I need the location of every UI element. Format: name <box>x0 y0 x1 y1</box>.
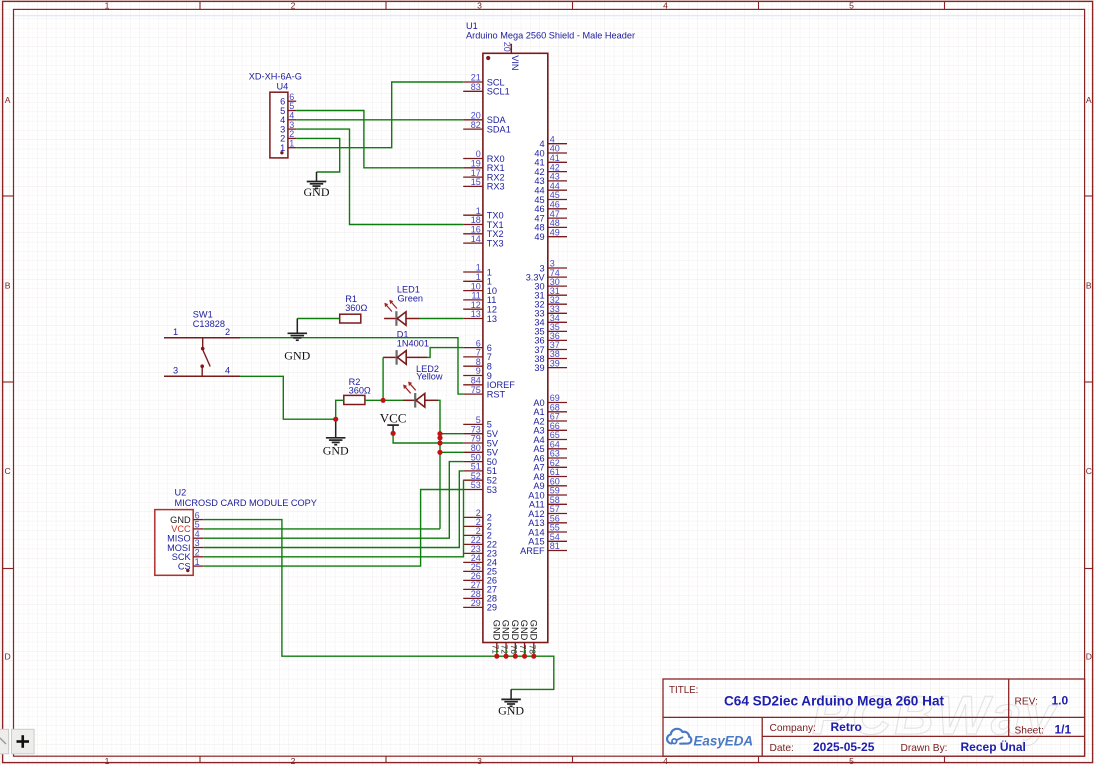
U1 left pin 0 RX0 <box>463 149 504 164</box>
U1 left pin 53 53 <box>463 480 497 495</box>
svg-text:EasyEDA: EasyEDA <box>694 734 754 749</box>
U4 pin 3 <box>280 120 296 135</box>
resistor R1 <box>340 314 361 323</box>
U1 left pin 7 7 <box>463 348 492 363</box>
EasyEDA logo <box>667 729 753 749</box>
wire U4 pin4 to U1 SDA <box>296 119 463 121</box>
U1 left pin 52 52 <box>463 471 497 486</box>
U1 right pin 74 3.3V <box>526 268 567 283</box>
svg-text:Arduino Mega 2560 Shield - Mal: Arduino Mega 2560 Shield - Male Header <box>466 31 635 41</box>
U1 right pin 68 A1 <box>533 403 567 418</box>
wire 5V rail to U1 pin 79 <box>440 442 463 444</box>
U1 left pin 6 6 <box>463 338 492 353</box>
svg-text:AREF: AREF <box>520 546 545 556</box>
U1 right pin 60 A9 <box>533 477 567 492</box>
svg-text:TITLE:: TITLE: <box>669 685 698 696</box>
ground under R2 junction <box>323 419 349 457</box>
svg-text:82: 82 <box>471 120 481 130</box>
U1 left pin 50 50 <box>463 452 497 467</box>
U1 right pin 46 46 <box>534 200 567 215</box>
U1 left pin 1 1 <box>463 263 492 278</box>
svg-text:GND: GND <box>491 620 501 641</box>
U1 left pin 8 8 <box>463 357 492 372</box>
svg-text:MICROSD CARD MODULE COPY: MICROSD CARD MODULE COPY <box>175 498 317 508</box>
svg-text:77: 77 <box>518 645 527 655</box>
U1 left pin 9 9 <box>463 366 492 381</box>
svg-text:GND: GND <box>528 620 538 641</box>
title block frame <box>663 679 1085 756</box>
U1 right pin 33 33 <box>534 304 567 319</box>
U1 right pin 34 34 <box>534 313 567 328</box>
svg-text:49: 49 <box>534 232 544 242</box>
svg-text:1: 1 <box>280 143 285 153</box>
svg-text:39: 39 <box>534 363 544 373</box>
U1 right pin 36 36 <box>534 331 567 346</box>
svg-text:39: 39 <box>550 358 560 368</box>
U1 left pin 79 5V <box>463 434 499 449</box>
U1 left pin 26 26 <box>463 571 497 586</box>
U1 left pin 11 11 <box>463 291 496 306</box>
svg-text:GND: GND <box>510 620 520 641</box>
component U1 body <box>483 53 548 642</box>
wire U4 pin2 to ground <box>296 138 340 172</box>
svg-text:A: A <box>5 95 11 105</box>
junction dot <box>437 431 442 436</box>
U1 left pin 80 5V <box>463 443 499 458</box>
U1 left pin 16 TX2 <box>463 225 503 240</box>
U1 left pin 29 29 <box>463 598 497 613</box>
wire SW1 pin2 to U1 RST <box>240 338 463 394</box>
U1 left pin 15 RX3 <box>463 177 504 192</box>
LED LED2 <box>403 382 438 408</box>
U1 right pin 47 47 <box>534 209 567 224</box>
switch SW1 <box>164 338 240 377</box>
U1 right pin 48 48 <box>534 218 567 233</box>
U1 right pin 67 A2 <box>533 412 567 427</box>
resistor R2 <box>344 395 365 404</box>
U2 pin 3 MOSI <box>167 538 203 553</box>
svg-text:4: 4 <box>663 756 668 766</box>
svg-text:5: 5 <box>849 0 854 10</box>
U4 pin 4 <box>280 111 296 126</box>
wire U1 GND pin 72 stub to rail <box>505 650 507 657</box>
svg-text:A: A <box>1086 95 1092 105</box>
U1 left pin 17 RX2 <box>463 168 504 183</box>
ground under U4 <box>304 172 330 199</box>
U4 pin 5 <box>280 101 296 116</box>
U1 right pin 4 4 <box>539 134 567 149</box>
svg-text:1/1: 1/1 <box>1055 722 1072 736</box>
LED LED1 <box>384 300 420 326</box>
U1 left pin 27 27 <box>463 580 497 595</box>
U1 right pin 55 A14 <box>528 523 567 538</box>
U1 left pin 2 2 <box>463 517 492 532</box>
U1 left pin 10 10 <box>463 281 497 296</box>
wire U2 GND to bottom ground rail <box>203 520 554 690</box>
U1 bottom pin 77 GND <box>518 620 529 655</box>
U2 pin 1 CS <box>178 557 203 572</box>
svg-text:49: 49 <box>550 227 560 237</box>
svg-text:71: 71 <box>490 645 499 655</box>
wire LED2 cathode down to 5V rail <box>438 400 440 529</box>
svg-text:XD-XH-6A-G: XD-XH-6A-G <box>249 72 302 82</box>
U1 right pin 54 A15 <box>528 532 567 547</box>
svg-text:VIN: VIN <box>510 55 520 70</box>
svg-text:C64 SD2iec Arduino Mega 260 Ha: C64 SD2iec Arduino Mega 260 Hat <box>724 693 945 708</box>
svg-text:C: C <box>1086 466 1092 476</box>
U1 right pin 59 A10 <box>528 486 567 501</box>
svg-text:14: 14 <box>471 234 481 244</box>
VCC net flag <box>380 410 407 433</box>
U1 left pin 25 25 <box>463 562 497 577</box>
wire U2 VCC to 5V rail <box>203 528 440 530</box>
svg-text:U2: U2 <box>175 487 187 497</box>
svg-text:15: 15 <box>471 177 481 187</box>
wire U1 pin 52 to U2 SCK <box>203 480 463 557</box>
junction dot <box>381 398 386 403</box>
svg-text:U4: U4 <box>277 82 289 92</box>
U1 right pin 43 43 <box>534 172 567 187</box>
svg-text:72: 72 <box>500 645 509 655</box>
svg-text:20: 20 <box>502 42 512 52</box>
zoom plus button <box>0 729 34 754</box>
U1 left pin 83 SCL1 <box>463 82 510 97</box>
svg-text:53: 53 <box>471 480 481 490</box>
svg-text:13: 13 <box>487 314 497 324</box>
junction dot <box>531 654 536 659</box>
U1 left pin 14 TX3 <box>463 234 503 249</box>
U1 left pin 18 TX1 <box>463 215 503 230</box>
U2 pin 5 VCC <box>171 520 203 535</box>
U1 left pin 24 24 <box>463 553 497 568</box>
U1 left pin 13 13 <box>463 309 497 324</box>
svg-text:SDA1: SDA1 <box>487 124 511 134</box>
wire R2 to LED2 <box>365 399 403 401</box>
svg-text:GND: GND <box>519 620 529 641</box>
junction dot <box>437 440 442 445</box>
U1 left pin 1 TX0 <box>463 206 503 221</box>
U1 pin 20 VIN (top) <box>502 42 520 71</box>
svg-text:78: 78 <box>527 645 536 655</box>
svg-text:360Ω: 360Ω <box>349 385 371 395</box>
U1 left pin 5 5 <box>463 415 492 430</box>
U2 pin 4 MISO <box>167 529 203 544</box>
junction dot <box>494 654 499 659</box>
U1 right pin 57 A12 <box>528 504 567 519</box>
svg-text:D: D <box>4 652 10 662</box>
wire VCC flag to 5V rail <box>393 433 440 443</box>
svg-text:53: 53 <box>487 485 497 495</box>
U1 right pin 45 45 <box>534 190 567 205</box>
U1 right pin 49 49 <box>534 227 567 242</box>
U1 left pin 28 28 <box>463 589 497 604</box>
U1 right pin 35 35 <box>534 322 567 337</box>
wire U4 pin5 to U1 RX1 <box>296 111 463 168</box>
wire U1 GND pin 78 stub to rail <box>533 650 535 657</box>
wire U1 pin 51 to U2 MOSI <box>203 471 463 548</box>
wire LED1 to U1 pin 13 <box>420 318 463 320</box>
junction dot <box>437 435 442 440</box>
svg-text:TX3: TX3 <box>487 238 504 248</box>
svg-text:Recep Ünal: Recep Ünal <box>961 739 1026 754</box>
svg-text:1: 1 <box>195 557 200 567</box>
svg-text:1: 1 <box>173 327 178 337</box>
svg-text:Drawn By:: Drawn By: <box>901 743 948 754</box>
U1 right pin 30 30 <box>534 277 567 292</box>
U1 right pin 39 39 <box>534 358 567 373</box>
U2 anchor dot <box>186 569 189 572</box>
svg-text:GND: GND <box>501 620 511 641</box>
svg-text:75: 75 <box>471 385 481 395</box>
svg-text:5: 5 <box>849 756 854 766</box>
U1 right pin 37 37 <box>534 340 567 355</box>
U1 right pin 69 A0 <box>533 393 567 408</box>
U1 right pin 81 AREF <box>520 541 567 556</box>
wire U4 pin3 to U1 TX1 <box>296 129 463 224</box>
svg-text:GND: GND <box>323 443 349 457</box>
wire U1 pin 50 to U2 MISO <box>203 462 463 539</box>
U1 left pin 21 SCL <box>463 73 504 88</box>
U2 pin 2 SCK <box>172 548 204 563</box>
U1 anchor dot <box>486 56 490 60</box>
svg-text:GND: GND <box>284 349 310 363</box>
svg-text:Yellow: Yellow <box>416 372 443 382</box>
wire U1 GND pin 71 stub to rail <box>496 650 498 657</box>
U1 left pin 84 IOREF <box>463 376 515 391</box>
U1 right pin 3 3 <box>539 259 567 274</box>
U1 bottom pin 78 GND <box>527 620 538 655</box>
svg-text:29: 29 <box>487 603 497 613</box>
svg-text:2: 2 <box>291 756 296 766</box>
U1 right pin 31 31 <box>534 286 567 301</box>
svg-text:Sheet:: Sheet: <box>1015 725 1044 736</box>
wire U1 GND pin 76 stub to rail <box>514 650 516 657</box>
svg-text:C: C <box>4 466 10 476</box>
wire ground to R1 <box>297 318 339 320</box>
junction dot <box>513 654 518 659</box>
svg-text:B: B <box>5 281 11 291</box>
wire SW1 pin4 to ground junction <box>240 376 336 419</box>
svg-text:RST: RST <box>487 389 506 399</box>
svg-text:1.0: 1.0 <box>1052 694 1069 708</box>
junction dot <box>391 431 396 436</box>
U1 right pin 56 A13 <box>528 514 567 529</box>
U1 left pin 82 SDA1 <box>463 120 511 135</box>
svg-text:Green: Green <box>398 293 424 303</box>
svg-text:1: 1 <box>289 138 294 148</box>
U1 left pin 1 1 <box>463 272 492 287</box>
svg-text:4: 4 <box>225 365 230 375</box>
svg-text:3: 3 <box>477 0 482 10</box>
svg-text:3: 3 <box>173 365 178 375</box>
U1 right pin 63 A6 <box>533 449 567 464</box>
U1 right pin 38 38 <box>534 349 567 364</box>
svg-text:Company:: Company: <box>770 723 816 734</box>
U1 left pin 2 2 <box>463 508 492 523</box>
U1 left pin 51 51 <box>463 462 497 477</box>
svg-text:U1: U1 <box>466 21 478 31</box>
U1 left pin 2 2 <box>463 526 492 541</box>
svg-text:Retro: Retro <box>831 720 862 734</box>
U1 right pin 40 40 <box>534 144 567 159</box>
svg-text:1: 1 <box>105 0 110 10</box>
canvas origin axis <box>14 15 1085 17</box>
svg-text:RX3: RX3 <box>487 182 505 192</box>
U1 bottom pin 71 GND <box>490 620 501 655</box>
U1 bottom pin 76 GND <box>509 620 520 655</box>
U1 right pin 44 44 <box>534 181 567 196</box>
U1 right pin 32 32 <box>534 295 567 310</box>
svg-text:SW1: SW1 <box>193 310 213 320</box>
wire D1 cathode to U1 pin 6 <box>428 348 464 358</box>
U1 left pin 19 RX1 <box>463 159 504 174</box>
junction dot <box>503 654 508 659</box>
svg-text:D: D <box>1086 652 1092 662</box>
svg-text:4: 4 <box>663 0 668 10</box>
svg-text:76: 76 <box>509 645 518 655</box>
svg-text:1N4001: 1N4001 <box>397 338 429 348</box>
U1 right pin 65 A4 <box>533 430 567 445</box>
wire U1 pin 53 to U2 CS <box>203 490 463 567</box>
U1 right pin 64 A5 <box>533 440 567 455</box>
U4 anchor dot <box>280 151 283 154</box>
wire 5V rail to U1 pin 73 <box>440 433 463 435</box>
diode D1 1N4001 <box>383 350 428 365</box>
svg-text:1: 1 <box>105 756 110 766</box>
ground at R1 <box>284 319 310 363</box>
U2 pin 6 GND <box>170 510 203 525</box>
component U2 body <box>155 510 193 576</box>
U1 left pin 23 23 <box>463 544 497 559</box>
wire 5V rail to U1 pin 80 <box>440 451 463 453</box>
U4 pin 6 <box>280 92 296 107</box>
svg-text:29: 29 <box>471 598 481 608</box>
svg-text:C13828: C13828 <box>193 319 225 329</box>
U1 right pin 42 42 <box>534 162 567 177</box>
U1 left pin 12 12 <box>463 300 497 315</box>
component U4 body <box>270 92 288 158</box>
wire U1 GND pin 77 stub to rail <box>524 650 526 657</box>
svg-text:360Ω: 360Ω <box>345 303 367 313</box>
svg-text:13: 13 <box>471 309 481 319</box>
svg-text:SCL1: SCL1 <box>487 87 510 97</box>
U1 left pin 20 SDA <box>463 111 506 126</box>
U1 bottom pin 72 GND <box>500 620 511 655</box>
U1 right pin 62 A7 <box>533 458 567 473</box>
U4 pin 2 <box>280 129 296 144</box>
junction dot <box>437 450 442 455</box>
svg-text:2: 2 <box>225 327 230 337</box>
svg-text:VCC: VCC <box>380 410 407 425</box>
svg-text:3: 3 <box>477 756 482 766</box>
svg-text:2025-05-25: 2025-05-25 <box>813 740 875 754</box>
svg-text:B: B <box>1086 281 1092 291</box>
U1 left pin 73 5V <box>463 424 499 439</box>
U1 right pin 66 A3 <box>533 421 567 436</box>
svg-text:2: 2 <box>291 0 296 10</box>
junction dot <box>522 654 527 659</box>
U1 right pin 41 41 <box>534 153 567 168</box>
svg-text:REV:: REV: <box>1015 697 1038 708</box>
svg-text:81: 81 <box>550 541 560 551</box>
svg-text:GND: GND <box>498 704 524 718</box>
junction dot <box>333 417 338 422</box>
ground at bottom rail <box>498 689 524 717</box>
U1 right pin 61 A8 <box>533 467 567 482</box>
wire R2 left to ground junction <box>336 400 344 419</box>
svg-text:83: 83 <box>471 82 481 92</box>
U4 pin 1 <box>280 138 296 153</box>
U1 right pin 58 A11 <box>529 495 567 510</box>
wire U4 pin1 to U1 SCL <box>296 82 463 148</box>
svg-text:Date:: Date: <box>770 743 794 754</box>
svg-text:GND: GND <box>304 185 330 199</box>
U1 left pin 75 RST <box>463 385 505 400</box>
wire D1 anode down to LED2 net <box>382 357 384 400</box>
U1 left pin 22 22 <box>463 535 497 550</box>
svg-text:CS: CS <box>178 561 191 571</box>
